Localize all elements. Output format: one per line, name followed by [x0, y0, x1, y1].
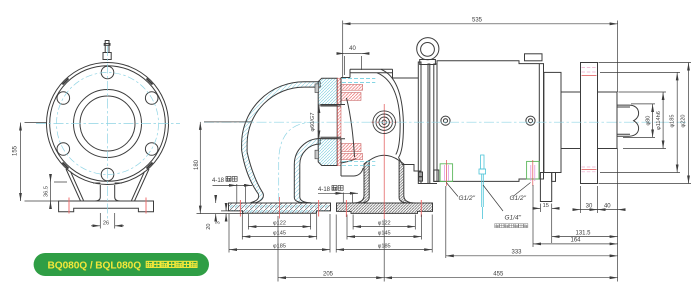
- svg-text:155: 155: [13, 145, 19, 156]
- svg-text:φ114h6: φ114h6: [656, 111, 662, 130]
- svg-text:φ145: φ145: [273, 231, 286, 237]
- svg-text:3: 3: [216, 221, 222, 224]
- svg-text:4-18: 4-18: [318, 187, 331, 193]
- svg-text:455: 455: [493, 271, 504, 277]
- svg-text:205: 205: [323, 271, 334, 277]
- svg-text:φ185: φ185: [273, 244, 286, 250]
- svg-text:40: 40: [349, 46, 356, 52]
- svg-text:φ122: φ122: [273, 221, 286, 227]
- svg-text:G1/2": G1/2": [510, 195, 527, 202]
- svg-text:15: 15: [543, 203, 549, 209]
- svg-text:20: 20: [206, 223, 212, 229]
- svg-text:26: 26: [103, 221, 109, 227]
- svg-text:φ80: φ80: [645, 116, 651, 126]
- svg-text:φ220: φ220: [680, 115, 686, 128]
- svg-text:131.5: 131.5: [575, 230, 591, 236]
- svg-text:36.5: 36.5: [43, 186, 49, 197]
- svg-text:4-18: 4-18: [212, 178, 225, 184]
- svg-text:φ185: φ185: [378, 244, 391, 250]
- svg-text:535: 535: [472, 18, 483, 24]
- svg-text:164: 164: [570, 238, 581, 244]
- svg-text:φ60/G7: φ60/G7: [310, 113, 316, 132]
- svg-text:φ185: φ185: [669, 115, 675, 128]
- svg-text:G1/4": G1/4": [505, 214, 522, 221]
- svg-text:180: 180: [194, 159, 200, 170]
- svg-text:333: 333: [511, 249, 522, 255]
- svg-text:G1/2": G1/2": [459, 195, 476, 202]
- svg-text:30: 30: [586, 203, 593, 209]
- svg-text:φ122: φ122: [378, 221, 391, 227]
- svg-text:40: 40: [604, 203, 611, 209]
- svg-text:BQ080Q / BQL080Q: BQ080Q / BQL080Q: [48, 261, 142, 272]
- svg-text:φ145: φ145: [378, 231, 391, 237]
